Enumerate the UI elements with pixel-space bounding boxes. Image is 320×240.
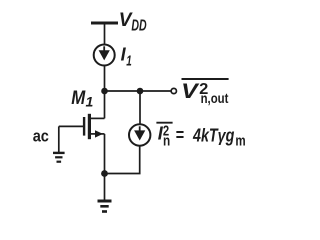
VDD supply bar (91, 22, 118, 25)
label In2 = 4kT gamma gm (156, 122, 172, 124)
wire bottom node to ground (104, 174, 106, 201)
wire source to bottom node (104, 134, 106, 174)
svg-text:V: V (181, 80, 200, 103)
svg-text:m: m (235, 133, 245, 149)
node A (drain node) (101, 88, 108, 95)
output terminal (171, 88, 176, 93)
node C (bottom node) (101, 170, 108, 177)
node B (noise source tap) (137, 88, 144, 95)
svg-text:4kTγg: 4kTγg (192, 125, 234, 145)
ground (bottom) (98, 200, 112, 203)
wire VDD to I1 (104, 23, 106, 45)
svg-text:DD: DD (131, 17, 146, 34)
label Vn,out squared with overline (182, 78, 229, 80)
current source I1 (94, 45, 115, 66)
wire node A to output (105, 90, 171, 92)
svg-text:n,out: n,out (201, 90, 229, 106)
svg-text:=: = (176, 125, 184, 145)
noise current source In2 (129, 124, 150, 145)
svg-text:M: M (71, 87, 86, 109)
wire noise source to bottom node (105, 145, 140, 173)
svg-text:ac: ac (33, 126, 49, 145)
wire node B down to noise source (139, 91, 141, 125)
transistor M1 (59, 125, 83, 127)
svg-text:n: n (163, 132, 170, 149)
svg-text:1: 1 (126, 53, 132, 70)
wire I1 to drain node (104, 66, 106, 119)
ac ground (58, 126, 60, 152)
svg-text:1: 1 (86, 93, 94, 109)
